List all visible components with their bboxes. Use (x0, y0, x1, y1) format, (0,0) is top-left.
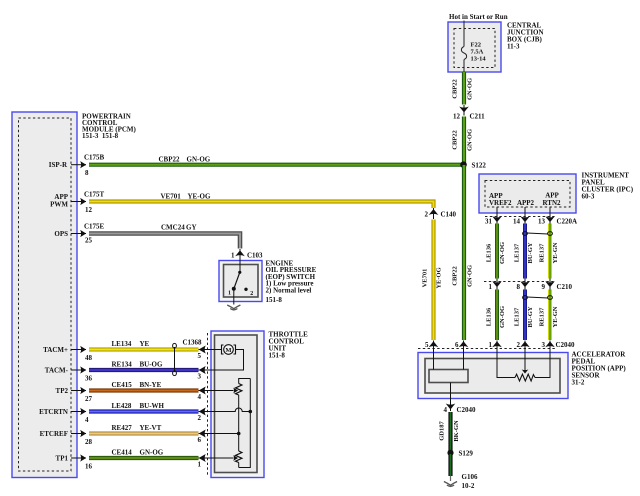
svg-text:48: 48 (85, 354, 93, 362)
svg-text:C211: C211 (470, 113, 486, 121)
svg-text:13-14: 13-14 (471, 56, 487, 63)
svg-text:4: 4 (444, 406, 448, 414)
throttle control unit TCU (211, 331, 308, 478)
svg-text:14: 14 (513, 218, 521, 226)
svg-text:GY: GY (186, 224, 197, 232)
svg-text:GN-OG: GN-OG (499, 242, 506, 264)
PCM pin TP1 16 (56, 454, 93, 470)
svg-text:ETCRTN: ETCRTN (39, 408, 68, 416)
svg-text:C103: C103 (247, 252, 263, 260)
svg-text:GN-OG: GN-OG (187, 156, 211, 164)
svg-text:S122: S122 (472, 162, 487, 170)
PCM pin ETCRTN 4 (39, 408, 89, 424)
svg-text:16: 16 (85, 463, 93, 471)
splice S122 (460, 161, 486, 169)
svg-text:GN-OG: GN-OG (467, 265, 474, 287)
IPC pin stubs (497, 207, 550, 217)
svg-text:60-3: 60-3 (582, 193, 595, 201)
svg-text:6: 6 (198, 436, 202, 444)
wire LE134 YE (PCM TACM+ to TCU pin 5) (89, 340, 199, 350)
svg-text:CBP22: CBP22 (452, 79, 459, 99)
svg-text:TP2: TP2 (56, 387, 69, 395)
powertrain control module PCM (12, 112, 137, 478)
twisted pair symbol at C1368 (173, 343, 177, 375)
splice S129 (447, 450, 473, 458)
svg-text:CMC24: CMC24 (161, 224, 185, 232)
PCM pin ISP-R C175B 8 (49, 154, 105, 178)
svg-text:BN-YE: BN-YE (140, 381, 162, 389)
svg-text:YE-OG: YE-OG (436, 267, 443, 288)
svg-text:VE701: VE701 (422, 269, 429, 288)
PCM pin TACM+ 48 (43, 346, 92, 362)
connector C140 (425, 208, 457, 219)
svg-text:BU-GY: BU-GY (527, 242, 534, 263)
svg-text:31: 31 (485, 218, 493, 226)
TCU internal rail (239, 379, 252, 468)
svg-text:C175E: C175E (84, 223, 105, 231)
svg-text:BU-OG: BU-OG (140, 361, 164, 369)
svg-text:6: 6 (455, 341, 459, 349)
svg-text:1: 1 (231, 252, 235, 260)
svg-text:LE136: LE136 (486, 307, 493, 326)
wire CBP22 GN-OG (S122 to APP sensor pin 6) (452, 165, 474, 340)
svg-text:2: 2 (250, 291, 253, 297)
svg-text:36: 36 (85, 375, 93, 383)
svg-text:LE134: LE134 (112, 340, 132, 348)
svg-text:F22: F22 (471, 42, 481, 49)
wire GD187 BK-GN (S129 to G106) (448, 454, 452, 481)
wire CBP22 GN-OG (CJB to C211) (452, 72, 474, 105)
svg-text:C175B: C175B (84, 154, 105, 162)
svg-text:PWM: PWM (50, 201, 68, 209)
wire RE137 YE-GN (C220A to C210) (539, 224, 560, 279)
svg-text:5: 5 (425, 341, 429, 349)
TCU crossover hump (ETCRTN over pot link) (233, 408, 250, 411)
TCU pin 1 (198, 454, 234, 469)
wire CE414 GN-OG (PCM TP1 to TCU pin 1) (89, 449, 199, 459)
svg-text:YE-GN: YE-GN (552, 242, 559, 263)
svg-text:C210: C210 (557, 283, 573, 291)
svg-text:9: 9 (542, 283, 546, 291)
PCM pin ETCREF 28 (40, 430, 93, 446)
svg-text:2: 2 (517, 341, 521, 349)
motor M in TCU (215, 345, 244, 370)
svg-text:VREF2: VREF2 (489, 199, 512, 207)
svg-text:YE-OG: YE-OG (188, 193, 212, 201)
svg-text:12: 12 (453, 113, 461, 121)
TCU pin 5 (198, 346, 222, 361)
connector C220A (485, 216, 577, 225)
svg-text:ETCREF: ETCREF (40, 430, 68, 438)
APP sensor potentiometer (497, 348, 550, 381)
wire CMC24 GY (PCM OPS to C103) (89, 224, 240, 249)
twisted pair symbol below C210 (523, 296, 553, 300)
wire GD187 BK-GN (APP sensor to S129) (439, 412, 461, 452)
TCU potentiometer 2 (TP1) (233, 451, 242, 468)
svg-text:CBP22: CBP22 (452, 130, 459, 150)
svg-text:G106: G106 (462, 473, 478, 481)
connector C1368 (TCU dashed line) (183, 333, 208, 476)
svg-text:GD187: GD187 (439, 421, 446, 441)
svg-text:YE-GN: YE-GN (552, 306, 559, 327)
svg-text:ISP-R: ISP-R (49, 161, 68, 169)
svg-text:LE428: LE428 (112, 402, 132, 410)
EOP ground wire (233, 289, 235, 305)
svg-text:GN-OG: GN-OG (467, 78, 474, 100)
svg-text:VE701: VE701 (161, 193, 182, 201)
TCU pin 4 (198, 387, 234, 402)
connector C2040 (APP sensor top row) (418, 341, 575, 350)
svg-text:APP2: APP2 (517, 199, 535, 207)
wire RE427 YE-VT (PCM ETCREF to TCU pin 6) (89, 424, 199, 434)
svg-text:OPS: OPS (54, 230, 68, 238)
PCM pin OPS C175E 25 (54, 223, 104, 245)
twisted pair symbol below C220A (523, 232, 553, 236)
EOP switch contacts and lever (228, 257, 253, 297)
svg-text:GN-OG: GN-OG (140, 449, 164, 457)
connector C2040 pin 4 (444, 383, 477, 415)
wire LE136 GN-OG (C210 to APP sensor pin 1) (486, 290, 507, 341)
svg-text:2: 2 (425, 211, 429, 219)
svg-text:151-8: 151-8 (266, 296, 283, 304)
svg-text:4: 4 (85, 416, 89, 424)
svg-text:3: 3 (542, 341, 546, 349)
svg-text:TACM-: TACM- (45, 367, 69, 375)
svg-text:8: 8 (517, 283, 521, 291)
engine oil pressure EOP switch (219, 259, 317, 304)
svg-text:RE137: RE137 (539, 243, 546, 263)
svg-text:C175T: C175T (84, 191, 105, 199)
svg-text:YE-VT: YE-VT (140, 424, 162, 432)
svg-text:GN-OG: GN-OG (467, 129, 474, 151)
connector C210 (484, 279, 573, 291)
connector C211 (453, 105, 485, 121)
TCU pin 3 (198, 366, 215, 381)
svg-text:31-2: 31-2 (572, 379, 585, 387)
svg-text:3: 3 (198, 373, 202, 381)
svg-text:M: M (225, 347, 231, 354)
svg-text:13: 13 (538, 218, 546, 226)
svg-text:2: 2 (198, 414, 202, 422)
svg-text:RE427: RE427 (112, 424, 133, 432)
svg-text:4: 4 (198, 393, 202, 401)
svg-text:C1368: C1368 (183, 338, 203, 346)
svg-text:BU-GY: BU-GY (527, 306, 534, 327)
svg-text:28: 28 (85, 438, 93, 446)
wire LE137 BU-GY (C220A to C210) (514, 224, 535, 279)
ground G106 (444, 473, 478, 490)
ground (EOP switch) (227, 305, 240, 310)
svg-text:C220A: C220A (557, 218, 578, 226)
svg-text:TP1: TP1 (56, 455, 69, 463)
PCM pin APP PWM C175T 12 (50, 191, 104, 215)
svg-text:LE137: LE137 (514, 307, 521, 326)
svg-text:C2040: C2040 (556, 341, 576, 349)
svg-text:1: 1 (489, 283, 493, 291)
svg-text:YE: YE (140, 340, 150, 348)
wire RE134 BU-OG (PCM TACM- to TCU pin 3) (89, 361, 199, 371)
wire VE701 YE-OG (PCM APP PWM to C140) (89, 193, 434, 209)
svg-text:LE136: LE136 (486, 243, 493, 262)
connector C103 (231, 249, 263, 260)
svg-text:GN-OG: GN-OG (499, 306, 506, 328)
wire RE137 YE-GN (C210 to APP sensor pin 3) (539, 290, 560, 341)
svg-text:RE137: RE137 (539, 307, 546, 327)
svg-text:CE414: CE414 (112, 449, 133, 457)
svg-text:CBP22: CBP22 (159, 156, 181, 164)
svg-text:7.5A: 7.5A (471, 49, 484, 56)
wire LE136 GN-OG (C220A to C210) (486, 224, 507, 279)
svg-text:11-3: 11-3 (507, 43, 520, 51)
svg-text:CE415: CE415 (112, 381, 133, 389)
svg-text:1: 1 (198, 461, 202, 469)
TCU pin 6 (198, 430, 238, 445)
PCM pin TACM- 36 (45, 366, 93, 382)
wire CBP22 GN-OG (C211 to S122) (452, 117, 474, 165)
wire LE137 BU-GY (C210 to APP sensor pin 2) (514, 290, 535, 341)
fuse F22 (461, 21, 486, 73)
svg-text:8: 8 (85, 169, 89, 177)
instrument panel cluster IPC (479, 172, 634, 214)
svg-text:5: 5 (198, 352, 202, 360)
svg-text:151-8: 151-8 (269, 352, 286, 360)
TCU pin 2 (198, 408, 234, 423)
svg-text:TACM+: TACM+ (43, 346, 68, 354)
svg-text:S129: S129 (459, 450, 474, 458)
svg-text:25: 25 (85, 237, 93, 245)
svg-text:BK-GN: BK-GN (453, 420, 460, 442)
PCM pin TP2 27 (56, 387, 93, 403)
svg-text:LE137: LE137 (514, 243, 521, 262)
TCU mid link and ETCREF junction (237, 395, 241, 451)
svg-text:151-3 151-8: 151-3 151-8 (82, 132, 119, 140)
wire LE428 BU-WH (PCM ETCRTN to TCU pin 2) (89, 402, 199, 412)
svg-text:1: 1 (228, 291, 231, 297)
svg-text:1: 1 (489, 341, 493, 349)
svg-text:C2040: C2040 (457, 406, 477, 414)
svg-text:CBP22: CBP22 (452, 266, 459, 286)
svg-text:2) Normal level: 2) Normal level (266, 287, 312, 295)
APP sensor internal element box (429, 348, 468, 383)
svg-text:10-2: 10-2 (462, 482, 475, 490)
wire CE415 BN-YE (PCM TP2 to TCU pin 4) (89, 381, 199, 391)
svg-text:RE134: RE134 (112, 361, 133, 369)
wire CBP22 GN-OG (PCM ISP-R to S122) (89, 156, 464, 165)
accelerator pedal position APP sensor (418, 351, 626, 399)
svg-text:BU-WH: BU-WH (140, 402, 165, 410)
svg-text:27: 27 (85, 395, 93, 403)
svg-text:Hot in Start or Run: Hot in Start or Run (449, 13, 508, 21)
svg-text:12: 12 (85, 206, 93, 214)
wire VE701 YE-OG (C140 to APP sensor pin 5) (422, 220, 443, 341)
svg-text:C140: C140 (441, 211, 457, 219)
svg-text:RTN2: RTN2 (542, 199, 561, 207)
TCU potentiometer 1 (TP2) (233, 379, 250, 396)
central junction box CJB (448, 22, 544, 73)
